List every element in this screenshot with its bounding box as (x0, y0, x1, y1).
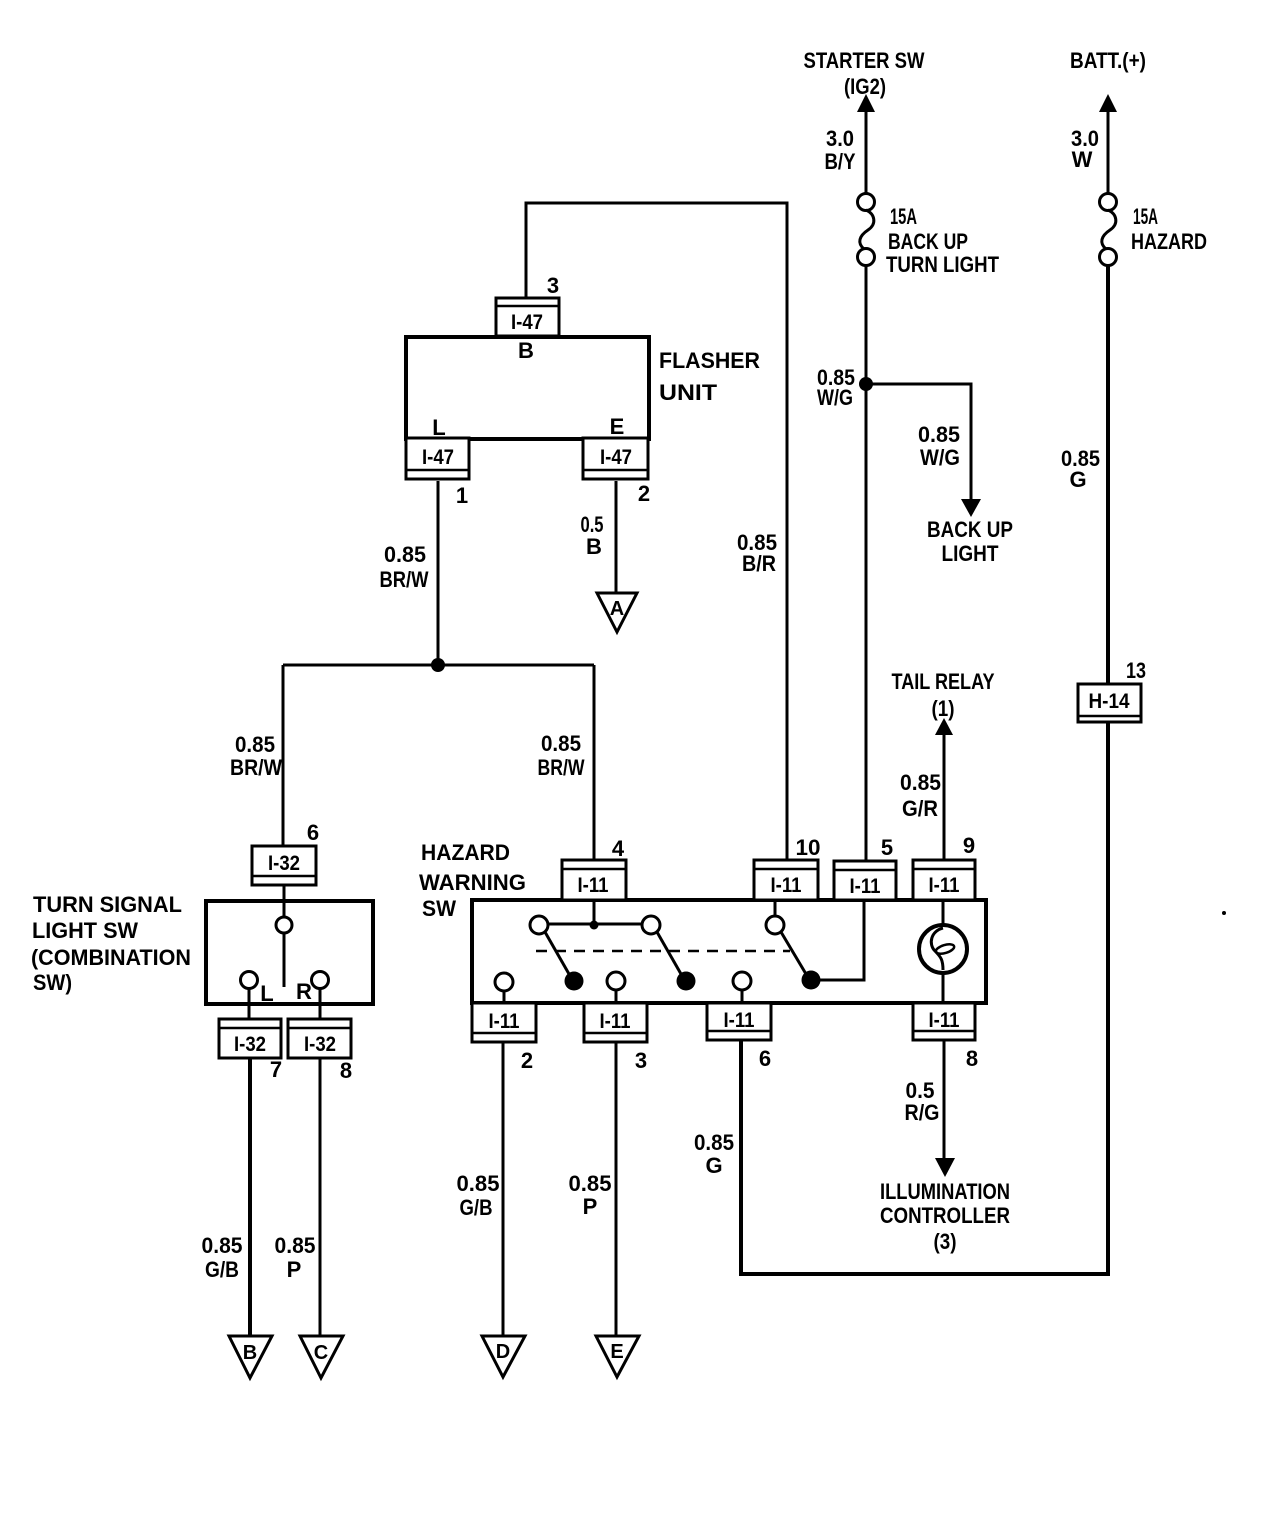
hazard sw: pin4 feed wire inside box (593, 902, 596, 925)
svg-text:(IG2): (IG2) (844, 74, 886, 99)
arrow up: to tail relay (935, 718, 953, 735)
svg-text:8: 8 (966, 1046, 978, 1071)
svg-text:15A: 15A (890, 204, 917, 229)
svg-text:I-32: I-32 (304, 1033, 336, 1056)
hazard sw: moving blade 3 (781, 932, 806, 974)
svg-text:L: L (260, 981, 273, 1006)
svg-text:5: 5 (881, 835, 893, 860)
svg-text:I-11: I-11 (771, 874, 802, 897)
svg-text:15A: 15A (1133, 204, 1158, 229)
svg-text:0.85: 0.85 (541, 731, 581, 756)
connector I-11 pin10 on hazard sw top (754, 860, 818, 900)
svg-text:I-11: I-11 (600, 1010, 631, 1033)
turn signal switch: L contact circle (241, 972, 258, 989)
triangle A connector (597, 593, 637, 632)
svg-text:13: 13 (1126, 658, 1146, 683)
svg-text:G/R: G/R (902, 796, 938, 821)
connector I-11 pin2 under hazard sw (472, 1003, 536, 1042)
connector I-11 pin3 under hazard sw (584, 1003, 647, 1042)
wire: H-14 down, across bottom, up to hazard pin6 (741, 722, 1108, 1274)
arrow down: to back up light (961, 499, 981, 517)
svg-text:FLASHER: FLASHER (659, 348, 760, 373)
svg-text:D: D (496, 1341, 510, 1363)
svg-text:BACK UP: BACK UP (888, 229, 968, 254)
svg-text:2: 2 (638, 481, 650, 506)
svg-text:I-32: I-32 (234, 1033, 266, 1056)
svg-text:W/G: W/G (920, 445, 960, 470)
hazard sw: junction dot on bar (590, 921, 599, 930)
svg-text:I-11: I-11 (489, 1010, 520, 1033)
hazard sw: open contact above pin3 (607, 972, 625, 990)
svg-text:BR/W: BR/W (538, 755, 585, 780)
hazard sw: closed contact 1 (565, 972, 584, 991)
wire: starter sw vertical above fuse (865, 110, 868, 193)
wire: right branch down to hazard pin4 (593, 665, 596, 860)
svg-text:B/Y: B/Y (825, 149, 856, 174)
svg-text:8: 8 (340, 1058, 352, 1083)
connector I-32 pin7 under turn signal sw (219, 1019, 281, 1058)
svg-text:6: 6 (759, 1046, 771, 1071)
svg-text:0.85: 0.85 (202, 1233, 243, 1258)
svg-text:TAIL RELAY: TAIL RELAY (892, 669, 995, 694)
svg-text:SW: SW (422, 896, 456, 921)
svg-text:HAZARD: HAZARD (1131, 229, 1207, 254)
hazard sw: pole circle 3 (766, 916, 784, 934)
svg-text:CONTROLLER: CONTROLLER (880, 1203, 1010, 1228)
connector I-32 pin8 under turn signal sw (288, 1019, 351, 1058)
svg-text:P: P (583, 1194, 598, 1219)
svg-text:3: 3 (635, 1048, 647, 1073)
svg-text:A: A (610, 598, 624, 620)
svg-text:G: G (705, 1153, 722, 1178)
hazard sw: pole circle 1 (530, 916, 548, 934)
wire: batt fuse down to H-14 (1106, 265, 1110, 684)
stray scan dot (1222, 911, 1226, 915)
svg-text:(COMBINATION: (COMBINATION (31, 945, 191, 970)
svg-text:B: B (518, 338, 534, 363)
svg-text:I-11: I-11 (850, 875, 881, 898)
hazard sw: moving blade 1 (545, 932, 569, 974)
svg-text:C: C (314, 1342, 328, 1364)
svg-text:W/G: W/G (817, 385, 853, 410)
svg-text:(1): (1) (932, 696, 955, 721)
svg-text:E: E (610, 414, 625, 439)
hazard sw: contact3 to pin5 riser (818, 902, 864, 980)
triangle E connector (596, 1336, 639, 1377)
svg-text:0.85: 0.85 (694, 1130, 734, 1155)
svg-text:ILLUMINATION: ILLUMINATION (880, 1179, 1010, 1204)
svg-text:G: G (1069, 467, 1086, 492)
svg-text:LIGHT: LIGHT (942, 541, 999, 566)
svg-text:L: L (432, 415, 445, 440)
hazard sw: pole circle 2 (642, 916, 660, 934)
svg-text:LIGHT SW: LIGHT SW (32, 918, 138, 943)
svg-text:1: 1 (456, 483, 468, 508)
junction dot: flasher pin1 branch (431, 658, 445, 672)
svg-text:0.85: 0.85 (235, 732, 275, 757)
wire: tail relay arrow down to hazard pin9 (943, 733, 946, 860)
svg-text:TURN LIGHT: TURN LIGHT (886, 252, 999, 277)
connector I-47 pin1 (L) under flasher (406, 438, 469, 479)
triangle B connector (229, 1336, 272, 1378)
hazard sw: indicator lamp bulb (919, 925, 967, 973)
svg-text:0.85: 0.85 (900, 770, 941, 795)
turn signal light sw box (206, 901, 373, 1004)
wire: junction horizontal (283, 664, 594, 667)
connector I-11 pin4 on hazard sw top (562, 860, 626, 900)
connector I-47 pin2 (E) under flasher (583, 438, 648, 479)
turn signal switch: common circle (276, 917, 292, 933)
svg-text:I-47: I-47 (600, 446, 632, 469)
svg-text:G/B: G/B (460, 1195, 493, 1220)
svg-text:I-11: I-11 (929, 1009, 960, 1032)
svg-text:I-47: I-47 (511, 311, 543, 334)
wire: pin8 down to triangle C (319, 1058, 322, 1337)
svg-text:UNIT: UNIT (659, 380, 718, 405)
connector I-47 pin3 on flasher top (496, 298, 559, 336)
fuse: 15A hazard (1100, 194, 1117, 211)
svg-text:H-14: H-14 (1089, 690, 1130, 713)
svg-text:0.85: 0.85 (275, 1233, 316, 1258)
svg-text:I-11: I-11 (724, 1009, 755, 1032)
svg-text:WARNING: WARNING (419, 870, 526, 895)
triangle C connector (300, 1336, 343, 1378)
arrow down: to illumination controller (935, 1158, 955, 1177)
wire: hazard pin3 down to triangle E (615, 1042, 618, 1338)
fuse: 15A back up turn light (858, 194, 875, 211)
svg-text:0.85: 0.85 (384, 542, 426, 567)
hazard sw: closed contact 3 (802, 971, 821, 990)
connector I-11 pin8 under hazard sw (913, 1003, 975, 1040)
wire: hazard pin2 down to triangle D (502, 1042, 505, 1337)
wire: left branch down to I-32 pin6 (282, 665, 285, 846)
svg-text:6: 6 (307, 820, 319, 845)
svg-text:BACK UP: BACK UP (927, 517, 1013, 542)
hazard sw: indicator lamp wires (942, 902, 945, 934)
arrow up: to batt (1099, 94, 1117, 112)
hazard sw: pin10 feed inside box (774, 902, 777, 916)
svg-text:SW): SW) (33, 970, 72, 995)
triangle D connector (482, 1336, 525, 1377)
wire: TS L contact down to pin7 connector (248, 988, 251, 1019)
arrow up: to starter sw (857, 94, 875, 112)
svg-text:R: R (296, 979, 312, 1004)
connector H-14 on batt wire (1078, 684, 1141, 722)
svg-text:(3): (3) (934, 1229, 957, 1254)
wire: TS R contact down to pin8 connector (319, 988, 322, 1019)
wire: I-32 pin6 to turn signal box (283, 885, 286, 901)
wire: flasher pin2 down to triangle A (615, 481, 618, 594)
hazard sw: moving blade 2 (657, 932, 681, 974)
wire: junction branch to back up light arrow (866, 384, 971, 501)
wire: pin7 down to triangle B (248, 1058, 252, 1337)
connector I-11 pin9 on hazard sw top (913, 860, 975, 900)
hazard sw: closed contact 2 (677, 972, 696, 991)
svg-text:BATT.(+): BATT.(+) (1070, 48, 1146, 73)
svg-text:BR/W: BR/W (230, 755, 282, 780)
wire: batt vertical above fuse (1107, 110, 1110, 193)
svg-text:W: W (1072, 147, 1093, 172)
wire: flasher pin1 down to junction (437, 481, 440, 665)
svg-text:I-11: I-11 (578, 874, 609, 897)
flasher unit box (406, 337, 649, 439)
svg-text:B: B (586, 534, 602, 559)
svg-text:B/R: B/R (742, 551, 776, 576)
svg-text:B: B (243, 1342, 257, 1364)
svg-text:G/B: G/B (205, 1257, 239, 1282)
svg-text:7: 7 (270, 1057, 282, 1082)
connector I-11 pin5 on hazard sw top (834, 861, 896, 900)
svg-text:3.0: 3.0 (826, 126, 854, 151)
svg-text:E: E (610, 1341, 623, 1363)
svg-text:3: 3 (547, 273, 559, 298)
svg-text:I-47: I-47 (422, 446, 454, 469)
hazard sw: open contact above pin2 (495, 973, 513, 991)
svg-text:0.85: 0.85 (918, 422, 960, 447)
turn signal switch: R contact circle (312, 972, 329, 989)
svg-text:BR/W: BR/W (380, 567, 429, 592)
svg-text:I-11: I-11 (929, 874, 960, 897)
svg-text:TURN SIGNAL: TURN SIGNAL (33, 892, 182, 917)
wire: starter sw fuse to junction to hazard pin5 (865, 265, 868, 862)
wire: hazard pin8 down to illumination arrow (943, 1040, 946, 1160)
wire: flasher pin3 B up and over to hazard pin10 (526, 203, 787, 860)
wire: TS common pole (283, 903, 286, 917)
svg-text:0.85: 0.85 (569, 1171, 612, 1196)
connector I-32 pin6 above turn signal sw (252, 846, 316, 885)
svg-text:P: P (287, 1257, 302, 1282)
svg-text:10: 10 (796, 835, 821, 860)
svg-text:2: 2 (521, 1048, 533, 1073)
hazard warning sw box (472, 900, 986, 1003)
hazard sw: ganged linkage dashed line (536, 950, 790, 953)
svg-text:I-32: I-32 (268, 852, 300, 875)
junction dot: starter sw branch (859, 377, 873, 391)
connector I-11 pin6 under hazard sw (707, 1003, 771, 1040)
hazard sw: open contact above pin6 (733, 972, 751, 990)
svg-text:STARTER SW: STARTER SW (804, 48, 925, 73)
svg-text:0.85: 0.85 (457, 1171, 500, 1196)
svg-text:HAZARD: HAZARD (421, 840, 510, 865)
svg-text:R/G: R/G (905, 1100, 940, 1125)
svg-text:9: 9 (963, 833, 975, 858)
svg-text:4: 4 (612, 836, 625, 861)
hazard sw: bar between poles (546, 923, 644, 926)
